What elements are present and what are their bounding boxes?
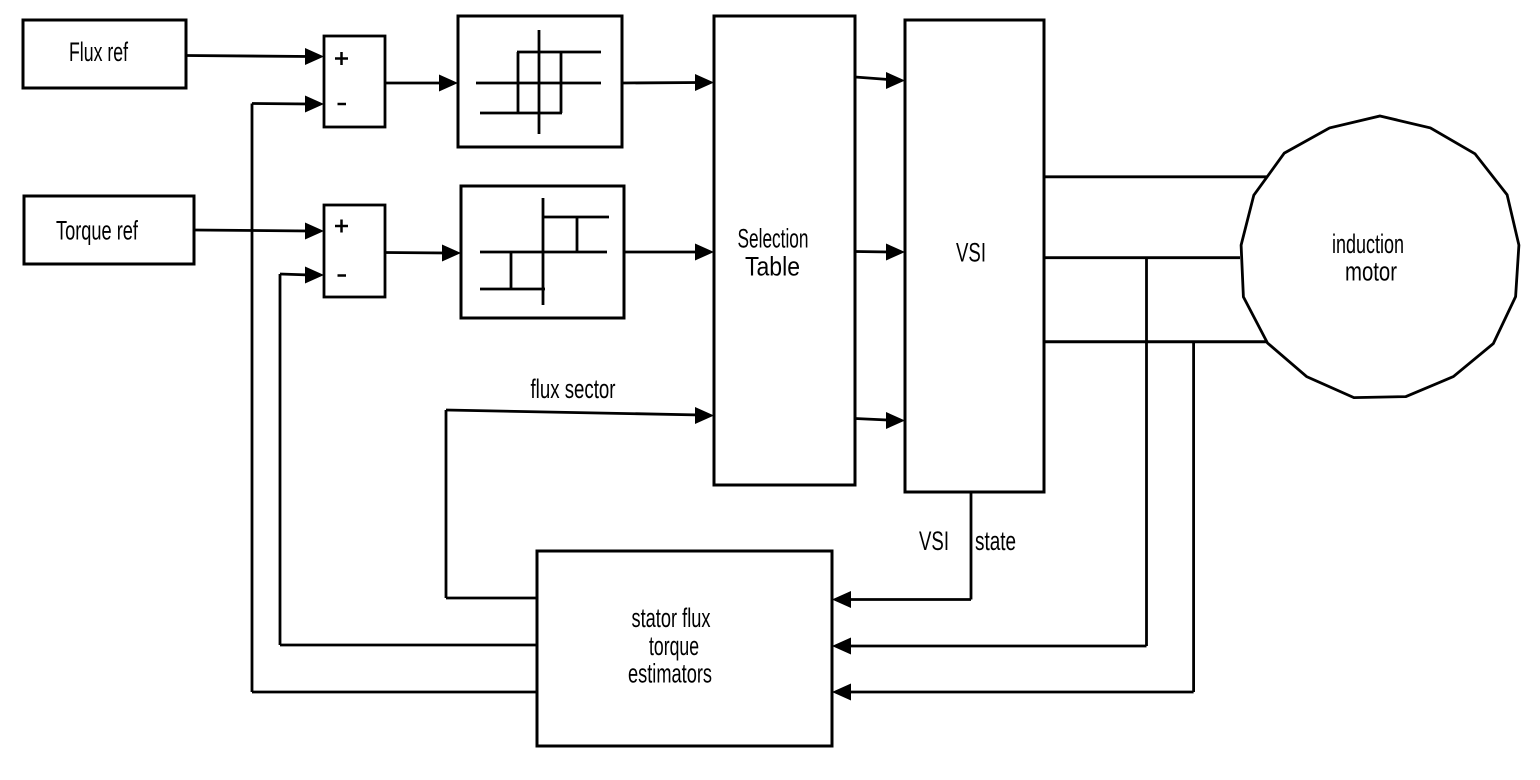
block flux summer <box>324 36 385 127</box>
block Selection Table <box>714 16 855 485</box>
block torque summer <box>324 205 385 297</box>
block flux hysteresis comparator <box>458 16 622 147</box>
wire torque feedback into summer minus <box>280 267 324 284</box>
svg-text:VSI: VSI <box>919 526 949 556</box>
wire Flux ref to flux summer <box>186 48 324 65</box>
block torque hysteresis comparator <box>461 186 624 318</box>
svg-text:state: state <box>975 526 1016 556</box>
svg-text:torque: torque <box>649 631 699 661</box>
svg-text:estimators: estimators <box>628 659 712 689</box>
wire phase C tap to estimator <box>832 342 1194 701</box>
svg-text:Selection: Selection <box>738 224 809 254</box>
wire Torque ref to torque summer <box>194 223 324 240</box>
label VSI state <box>919 526 1016 556</box>
wire torque summer to torque hysteresis <box>385 245 461 262</box>
wire selection table to VSI middle <box>855 244 905 261</box>
wire estimator flux sector output <box>446 597 537 600</box>
block Flux ref <box>23 20 186 88</box>
wire estimator flux output feedback <box>252 104 537 693</box>
wire VSI to motor phase C <box>1044 340 1268 343</box>
wire flux feedback into summer minus <box>252 96 324 113</box>
svg-text:stator flux: stator flux <box>632 603 711 633</box>
wire flux summer to flux hysteresis <box>385 75 458 92</box>
wire torque hysteresis to selection table <box>624 244 714 261</box>
wire selection table to VSI top <box>855 72 905 89</box>
block VSI <box>905 20 1044 492</box>
block stator flux torque estimators <box>537 551 832 746</box>
wire VSI to motor phase A <box>1044 175 1268 178</box>
wire selection table to VSI bottom <box>855 412 905 429</box>
svg-text:induction: induction <box>1332 229 1404 259</box>
wire phase B tap to estimator <box>832 258 1147 655</box>
svg-text:Torque ref: Torque ref <box>56 216 138 246</box>
wire flux hysteresis to selection table <box>622 74 714 91</box>
block Torque ref <box>24 196 194 264</box>
wire estimator torque output feedback <box>280 274 537 645</box>
svg-text:Table: Table <box>745 252 800 282</box>
svg-text:flux sector: flux sector <box>531 374 616 404</box>
block induction motor <box>1241 116 1519 398</box>
wire VSI state to estimator <box>832 492 971 608</box>
svg-text:motor: motor <box>1345 257 1397 287</box>
svg-text:VSI: VSI <box>956 238 986 268</box>
svg-text:Flux ref: Flux ref <box>69 37 128 67</box>
wire VSI to motor phase B <box>1044 256 1240 259</box>
wire flux sector into selection table <box>446 407 714 598</box>
